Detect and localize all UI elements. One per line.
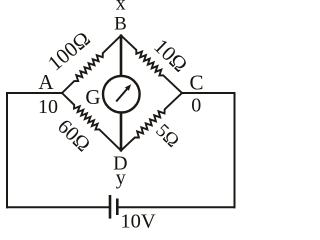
wire B to galvanometer — [120, 36, 123, 75]
svg-text:A: A — [38, 70, 54, 94]
galvanometer needle arrow — [116, 84, 131, 101]
wire C to right edge — [182, 92, 235, 94]
wire battery to bottom right — [118, 206, 235, 208]
battery left plate (long) — [109, 196, 112, 217]
svg-text:y: y — [116, 167, 126, 189]
galvanometer G circle — [103, 76, 140, 113]
junction blob node B — [118, 34, 123, 38]
wire bottom left to battery — [7, 206, 109, 208]
svg-text:5Ω: 5Ω — [151, 120, 183, 152]
resistor 10ohm B-C — [121, 36, 182, 94]
wire A to left edge — [7, 92, 62, 94]
wire right edge up — [234, 93, 236, 207]
resistor 100ohm A-B — [62, 36, 121, 94]
resistor 5ohm D-C — [121, 93, 182, 151]
resistor 60ohm A-D — [62, 93, 121, 151]
battery right plate (short) — [116, 200, 119, 214]
svg-text:x: x — [116, 0, 126, 15]
wire left edge down — [6, 93, 8, 207]
svg-text:B: B — [114, 14, 127, 35]
svg-text:G: G — [85, 85, 100, 109]
wire galvanometer to D — [120, 114, 123, 151]
svg-text:C: C — [189, 71, 203, 95]
svg-text:10: 10 — [38, 96, 58, 118]
svg-text:10V: 10V — [120, 211, 156, 229]
junction blob node D — [118, 148, 123, 152]
svg-text:0: 0 — [191, 95, 201, 117]
